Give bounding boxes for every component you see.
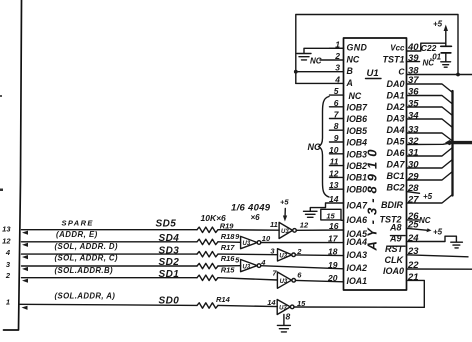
svg-text:R16: R16: [221, 254, 236, 263]
svg-text:40: 40: [407, 42, 419, 53]
svg-text:+5: +5: [423, 192, 433, 201]
svg-text:×6: ×6: [251, 213, 261, 222]
svg-text:DA3: DA3: [386, 114, 404, 124]
svg-text:DA7: DA7: [386, 160, 405, 170]
svg-text:IOB3: IOB3: [347, 149, 368, 159]
svg-text:12: 12: [2, 237, 11, 246]
svg-text:U3: U3: [280, 279, 288, 285]
svg-text:R15: R15: [221, 265, 236, 274]
svg-text:IOA6: IOA6: [347, 215, 368, 225]
svg-text:C: C: [398, 67, 405, 77]
svg-text:B: B: [347, 66, 354, 76]
svg-text:NC: NC: [310, 57, 322, 66]
svg-text:NC: NC: [419, 216, 431, 225]
svg-text:9: 9: [334, 133, 339, 143]
svg-text:4: 4: [260, 258, 266, 267]
svg-text:IOB2: IOB2: [347, 161, 368, 171]
svg-text:R17: R17: [221, 243, 236, 252]
svg-text:16: 16: [329, 221, 339, 231]
svg-text:SPARE: SPARE: [62, 218, 94, 227]
svg-text:IOB1: IOB1: [347, 173, 368, 183]
svg-text:14: 14: [267, 298, 276, 307]
svg-text:13: 13: [329, 180, 339, 190]
svg-text:+5: +5: [433, 228, 443, 237]
svg-text:R18: R18: [221, 232, 236, 241]
svg-text:SD2: SD2: [159, 257, 180, 268]
svg-text:CLK: CLK: [385, 255, 405, 265]
svg-text:12: 12: [329, 168, 339, 178]
svg-text:SD4: SD4: [159, 233, 180, 244]
svg-text:DA5: DA5: [386, 137, 405, 147]
svg-text:A8: A8: [389, 223, 402, 233]
svg-text:TST1: TST1: [382, 54, 404, 64]
svg-text:U3: U3: [281, 229, 289, 235]
svg-text:IOA2: IOA2: [347, 263, 368, 273]
svg-text:19: 19: [328, 260, 338, 270]
svg-text:2: 2: [5, 271, 11, 280]
svg-text:(SOL.ADDR, A): (SOL.ADDR, A): [55, 291, 116, 300]
svg-text:IOA4: IOA4: [347, 237, 368, 247]
svg-text:2: 2: [334, 51, 340, 61]
svg-text:BC1: BC1: [386, 171, 404, 181]
svg-text:IOA0: IOA0: [383, 266, 404, 276]
svg-text:R14: R14: [216, 295, 231, 304]
svg-text:15: 15: [297, 299, 306, 308]
svg-text:IOA7: IOA7: [347, 201, 369, 211]
svg-text:IOB5: IOB5: [347, 126, 368, 136]
svg-text:IOB0: IOB0: [347, 184, 368, 194]
svg-text:13: 13: [2, 224, 11, 233]
svg-text:18: 18: [328, 247, 338, 257]
svg-text:11: 11: [270, 220, 278, 229]
svg-text:6: 6: [334, 98, 339, 108]
svg-text:IOB6: IOB6: [347, 114, 368, 124]
svg-text:NC: NC: [308, 142, 321, 152]
svg-text:NC: NC: [347, 54, 360, 64]
svg-text:(ADDR, E): (ADDR, E): [56, 230, 98, 239]
svg-text:DA0: DA0: [386, 79, 404, 89]
svg-text:IOB4: IOB4: [347, 138, 368, 148]
svg-text:DA4: DA4: [386, 125, 404, 135]
svg-text:DA1: DA1: [386, 91, 404, 101]
svg-text:+5: +5: [280, 198, 289, 207]
svg-text:IOA3: IOA3: [347, 250, 368, 260]
svg-text:21: 21: [407, 272, 419, 283]
svg-text:BC2: BC2: [386, 183, 404, 193]
svg-text:DA2: DA2: [386, 102, 404, 112]
svg-text:NC: NC: [349, 91, 362, 101]
svg-text:11: 11: [330, 157, 339, 167]
svg-text:GND: GND: [347, 43, 368, 53]
svg-text:(SOL, ADDR. D): (SOL, ADDR. D): [55, 242, 118, 251]
svg-text:IOB7: IOB7: [347, 103, 369, 113]
svg-text:U1: U1: [367, 68, 379, 79]
svg-text:U3: U3: [279, 254, 287, 260]
svg-text:10K×6: 10K×6: [201, 213, 227, 223]
svg-text:4: 4: [5, 248, 11, 257]
svg-text:8: 8: [334, 121, 339, 131]
svg-text:15: 15: [326, 211, 335, 220]
svg-text:5: 5: [334, 86, 339, 96]
svg-text:1: 1: [6, 297, 10, 306]
svg-text:+5: +5: [433, 20, 443, 29]
svg-text:(SOL, ADDR, C): (SOL, ADDR, C): [55, 253, 118, 262]
svg-text:2: 2: [296, 247, 302, 256]
svg-text:1/6 4049: 1/6 4049: [231, 203, 271, 214]
svg-text:17: 17: [328, 234, 339, 244]
svg-text:U3: U3: [243, 264, 251, 270]
svg-text:8: 8: [286, 312, 291, 322]
svg-text:IOA1: IOA1: [347, 276, 368, 286]
svg-text:10: 10: [262, 234, 271, 243]
svg-text:SD1: SD1: [159, 269, 180, 280]
svg-text:BDIR: BDIR: [381, 200, 403, 210]
svg-text:DA6: DA6: [386, 148, 405, 158]
svg-text:C22: C22: [421, 43, 437, 53]
svg-text:SD0: SD0: [159, 296, 180, 307]
svg-text:U3: U3: [243, 241, 251, 247]
svg-text:10: 10: [329, 145, 339, 155]
svg-text:SD5: SD5: [156, 219, 177, 230]
svg-text:39: 39: [408, 53, 419, 64]
svg-text:Vcc: Vcc: [390, 44, 405, 53]
svg-text:12: 12: [300, 220, 309, 229]
svg-text:A: A: [346, 78, 353, 88]
svg-text:(SOL.ADDR.B): (SOL.ADDR.B): [55, 266, 114, 275]
svg-text:20: 20: [327, 273, 338, 283]
svg-text:NC: NC: [423, 59, 435, 68]
svg-text:SD3: SD3: [159, 245, 180, 256]
